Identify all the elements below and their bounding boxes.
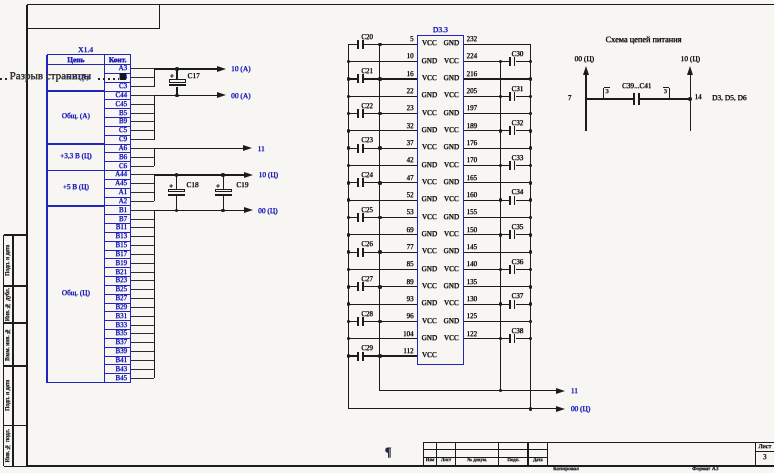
- IC D3.3 designator: [417, 26, 464, 34]
- capacitor C35: [0, 0, 774, 1]
- wire IC right pin 205 (VCC): [0, 0, 774, 1]
- capacitor C27: [0, 0, 774, 1]
- wire power bus with group marks: [0, 0, 774, 1]
- frame top border: [27, 4, 774, 6]
- wire net 11 (VCC rail): [380, 390, 556, 391]
- wire IC right pin 160 (VCC): [0, 0, 774, 1]
- wire IC left pin 32 (GND): [0, 0, 774, 1]
- left margin stamp column: [0, 0, 774, 1]
- connector X1.4 table: [0, 0, 774, 1]
- footer labels: [553, 467, 579, 473]
- capacitor C39...C41: [0, 0, 774, 1]
- wire IC left pin 53 (VCC): [0, 0, 774, 1]
- wire IC right pin 170 (VCC): [0, 0, 774, 1]
- capacitor C25: [0, 0, 774, 1]
- IC refs D3, D5, D6: [712, 94, 747, 101]
- wire IC left pin 23 (VCC): [0, 0, 774, 1]
- wire IC left pin 16 (VCC): [0, 0, 774, 1]
- wire IC right pin 197 (GND): [0, 0, 774, 1]
- wire IC left pin 96 (VCC): [0, 0, 774, 1]
- capacitor C30: [0, 0, 774, 1]
- node VCC bus left: [379, 44, 380, 390]
- node bus Общ(Ц): [154, 210, 155, 378]
- power circuit title: [606, 36, 682, 44]
- capacitor C19: [0, 0, 774, 1]
- wire IC right pin 176 (GND): [0, 0, 774, 1]
- wire IC right pin 224 (VCC): [0, 0, 774, 1]
- wire IC left pin 47 (VCC): [0, 0, 774, 1]
- node bus +3.3V(Ц): [154, 148, 155, 166]
- wire IC right pin 130 (VCC): [0, 0, 774, 1]
- top-left header box: [159, 5, 160, 29]
- capacitor C36: [0, 0, 774, 1]
- capacitor C23: [0, 0, 774, 1]
- wire IC left pin 52 (GND): [0, 0, 774, 1]
- wire IC left pin 10 (GND): [0, 0, 774, 1]
- wire net 10 (Ц): [154, 174, 244, 175]
- capacitor C24: [0, 0, 774, 1]
- wire net 11: [154, 148, 243, 149]
- wire IC right pin 165 (GND): [0, 0, 774, 1]
- wire IC left pin 69 (GND): [0, 0, 774, 1]
- frame left border: [26, 5, 28, 467]
- capacitor C28: [0, 0, 774, 1]
- capacitor C17: [0, 0, 774, 1]
- node GND bus left: [348, 44, 349, 409]
- wire IC left pin 89 (VCC): [0, 0, 774, 1]
- capacitor C29: [0, 0, 774, 1]
- wire X1.4 pins A44,A45,A1,A2 stubs: [0, 0, 774, 1]
- wire IC right pin 216 (GND): [0, 0, 774, 1]
- capacitor C21: [0, 0, 774, 1]
- capacitor C33: [0, 0, 774, 1]
- wire IC left pin 22 (GND): [0, 0, 774, 1]
- wire IC right pin 140 (VCC): [0, 0, 774, 1]
- node GND bus right: [530, 44, 531, 409]
- capacitor C34: [0, 0, 774, 1]
- wire net 10 (А): [154, 68, 217, 69]
- capacitor C31: [0, 0, 774, 1]
- capacitor C32: [0, 0, 774, 1]
- wire IC left pin 5 (VCC): [0, 0, 774, 1]
- wire IC left pin 93 (GND): [0, 0, 774, 1]
- node bus +5V(A): [154, 69, 155, 87]
- wire net 00 (Ц): [154, 210, 244, 211]
- wire IC left pin 104 (GND): [0, 0, 774, 1]
- capacitor C18: [0, 0, 774, 1]
- wire X1.4 pins A6,B6,C6 stubs: [0, 0, 774, 1]
- capacitor C37: [0, 0, 774, 1]
- wire IC right pin 189 (VCC): [0, 0, 774, 1]
- node bus Общ(А): [154, 95, 155, 139]
- wire IC right pin 232 (GND): [0, 0, 774, 1]
- wire IC right pin 155 (GND): [0, 0, 774, 1]
- wire IC left pin 37 (VCC): [0, 0, 774, 1]
- node bus +5V(Ц): [154, 175, 155, 202]
- wire X1.4 pins A3,B3,C3 stubs: [0, 0, 774, 1]
- capacitor C22: [0, 0, 774, 1]
- capacitor C20: [0, 0, 774, 1]
- wire X1.4 pins C44,C45,B5,B9,C5,C9 stubs: [0, 0, 774, 1]
- wire IC left pin 85 (GND): [0, 0, 774, 1]
- frame bottom border: [27, 465, 774, 467]
- node VCC bus right: [500, 62, 501, 391]
- wire IC right pin 122 (VCC): [0, 0, 774, 1]
- wire IC left pin 42 (GND): [0, 0, 774, 1]
- page break mark (Разрыв страницы): [0, 0, 774, 1]
- title block (основная надпись): [0, 0, 774, 1]
- capacitor C38: [0, 0, 774, 1]
- wire IC right pin 145 (GND): [0, 0, 774, 1]
- wire net 00 (А): [154, 95, 217, 96]
- wire IC right pin 150 (VCC): [0, 0, 774, 1]
- wire IC left pin 112 (VCC): [0, 0, 774, 1]
- connector X1.4 designator: [78, 46, 93, 54]
- wire net 00 (Ц) (GND rail): [348, 408, 556, 409]
- wire IC right pin 125 (GND): [0, 0, 774, 1]
- wire X1.4 pins B1..B45 stubs: [0, 0, 774, 1]
- net 00 (Ц) power stub: [0, 0, 774, 1]
- op-amp U1 / IC D3.3 body: [417, 35, 464, 365]
- wire IC left pin 77 (VCC): [0, 0, 774, 1]
- wire IC right pin 135 (GND): [0, 0, 774, 1]
- paragraph mark: [385, 446, 391, 459]
- capacitor C26: [0, 0, 774, 1]
- net 10 (Ц) power stub: [0, 0, 774, 1]
